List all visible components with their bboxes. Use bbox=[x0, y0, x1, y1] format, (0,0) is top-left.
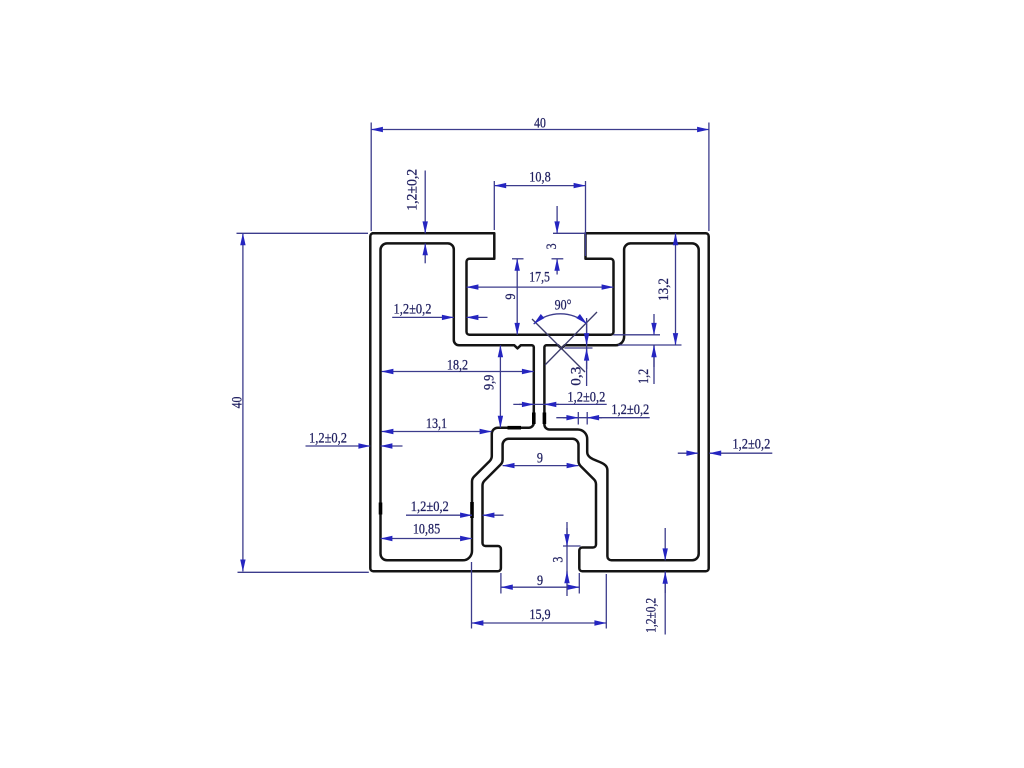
profile outline outer boundary with top T-slot and bottom channel bbox=[370, 233, 708, 571]
dimension 9 bottom opening bbox=[501, 573, 579, 594]
svg-text:10,8: 10,8 bbox=[529, 169, 550, 185]
dimension 1,2±0,2 lower right wall thickness bbox=[556, 402, 649, 424]
svg-text:18,2: 18,2 bbox=[447, 357, 468, 373]
dimension 90° V-notch angle bbox=[532, 298, 597, 373]
svg-text:1,2±0,2: 1,2±0,2 bbox=[567, 390, 605, 406]
svg-text:13,2: 13,2 bbox=[656, 278, 672, 301]
svg-text:1,2±0,2: 1,2±0,2 bbox=[405, 169, 421, 211]
dimension 0,3 V-notch remainder bbox=[565, 318, 593, 386]
thickness emphasis dash on center web right wall bbox=[543, 413, 547, 425]
svg-text:3: 3 bbox=[551, 557, 567, 563]
dimension 1,2±0,2 outer left wall bbox=[306, 431, 403, 447]
dimension 9 bottom box inner width bbox=[503, 450, 579, 466]
dimension 13,1 bbox=[382, 416, 492, 432]
svg-text:9,9: 9,9 bbox=[481, 375, 497, 390]
svg-text:0,3: 0,3 bbox=[569, 367, 585, 386]
dimension 9,9 web height bbox=[481, 345, 500, 427]
dimension 1,2±0,2 top wall thickness bbox=[405, 169, 426, 263]
svg-text:17,5: 17,5 bbox=[529, 270, 550, 286]
dimension 1,2±0,2 web thickness bbox=[513, 390, 606, 406]
dimension 1,2±0,2 chamber left wall bbox=[392, 302, 487, 318]
svg-text:1,2±0,2: 1,2±0,2 bbox=[394, 302, 432, 318]
dimension 10,8 top opening bbox=[494, 169, 585, 256]
dimension 15,9 bbox=[472, 562, 607, 629]
svg-text:1,2: 1,2 bbox=[636, 369, 652, 384]
thickness emphasis dash on bottom box outer left wall bbox=[470, 502, 474, 518]
dimension 17,5 chamber width bbox=[467, 270, 614, 288]
dimension 40 top bbox=[371, 115, 709, 231]
right cavity bbox=[544, 243, 698, 560]
dimension 18,2 bbox=[382, 357, 534, 373]
left cavity bbox=[381, 243, 534, 560]
svg-text:40: 40 bbox=[229, 397, 245, 409]
svg-text:1,2±0,2: 1,2±0,2 bbox=[411, 499, 449, 515]
svg-text:15,9: 15,9 bbox=[529, 607, 550, 623]
thickness emphasis dash on left cavity left wall bbox=[379, 503, 383, 515]
svg-text:1,2±0,2: 1,2±0,2 bbox=[732, 436, 770, 452]
svg-text:90°: 90° bbox=[555, 298, 572, 314]
svg-text:9: 9 bbox=[537, 450, 543, 466]
dimension 3 top lip depth bbox=[512, 206, 586, 275]
svg-text:40: 40 bbox=[534, 115, 546, 131]
svg-text:3: 3 bbox=[544, 243, 560, 249]
dimension 1,2±0,2 bottom wall right bbox=[644, 528, 666, 635]
svg-text:9: 9 bbox=[537, 573, 543, 589]
dimension 13,2 right depth bbox=[618, 233, 682, 345]
svg-text:10,85: 10,85 bbox=[413, 521, 440, 537]
dimension 1,2±0,2 outer right wall bbox=[678, 436, 773, 453]
dimension 10,85 bbox=[381, 521, 473, 538]
thickness emphasis dash on bottom box top wall left bbox=[508, 426, 522, 430]
svg-text:1,2±0,2: 1,2±0,2 bbox=[309, 431, 347, 447]
svg-text:9: 9 bbox=[503, 294, 519, 300]
svg-text:1,2±0,2: 1,2±0,2 bbox=[644, 598, 660, 633]
svg-text:1,2±0,2: 1,2±0,2 bbox=[611, 402, 649, 418]
dimension 9 chamber height bbox=[503, 259, 519, 335]
dimension 3 bottom floor thickness bbox=[551, 522, 581, 596]
thickness emphasis dash on center web left wall bbox=[532, 413, 536, 425]
dimension 1,2±0,2 box lower left wall bbox=[406, 499, 504, 515]
dimension 40 left bbox=[229, 233, 368, 572]
dimension 1,2 chamber floor thickness bbox=[613, 314, 660, 384]
svg-text:13,1: 13,1 bbox=[426, 416, 447, 432]
